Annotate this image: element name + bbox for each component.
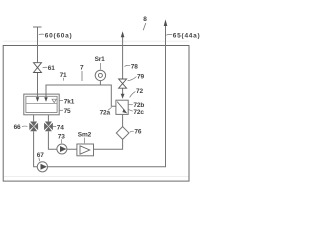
leader for 72b <box>129 104 133 106</box>
leader for 8 <box>143 23 146 30</box>
tank 7k1 outer shell <box>24 94 59 115</box>
arrow down into box 72 <box>121 94 125 99</box>
svg-text:75: 75 <box>64 108 71 115</box>
wire Sm2 to pump 73 to valve 74 <box>48 131 77 149</box>
arrow up on pipe 65 top <box>164 19 168 26</box>
svg-text:Sm2: Sm2 <box>78 131 92 138</box>
leader for 61 <box>43 66 48 69</box>
leader for 7k1 <box>60 99 63 101</box>
svg-text:72a: 72a <box>100 110 111 117</box>
wire box72 to diamond 76 <box>122 114 124 127</box>
svg-text:7k1: 7k1 <box>64 99 75 106</box>
svg-text:72: 72 <box>136 88 143 95</box>
three-way valve box 72 <box>116 100 128 114</box>
pump 73 <box>57 144 67 154</box>
arrow into tank from pipe 71 <box>44 97 47 102</box>
svg-text:76: 76 <box>134 129 141 136</box>
svg-text:Sr1: Sr1 <box>95 56 106 63</box>
pump 67 <box>37 162 47 172</box>
leader for 72 <box>130 92 136 98</box>
flow component Sm2 box <box>77 144 94 156</box>
leader for 73 <box>61 139 63 143</box>
leader for 75 <box>60 109 63 111</box>
arrow into tank from pipe 60 <box>36 97 39 102</box>
svg-text:78: 78 <box>131 63 138 70</box>
svg-text:71: 71 <box>60 72 67 79</box>
leader for 79 <box>128 77 137 81</box>
wire pipe 65 long L <box>34 26 166 167</box>
svg-text:60(60a): 60(60a) <box>45 32 73 39</box>
leader for 60(60a) <box>39 33 44 36</box>
svg-text:66: 66 <box>14 124 21 131</box>
arrow up on pipe 78 top <box>121 31 125 37</box>
valve 79 bowtie <box>119 79 127 88</box>
leader for 72c <box>129 110 133 112</box>
leader for 72a <box>108 107 112 110</box>
svg-text:67: 67 <box>37 152 44 159</box>
valve 61 bowtie <box>34 63 42 73</box>
wire pipe 60 tick <box>33 26 42 28</box>
leader for 76 <box>130 131 134 132</box>
svg-text:8: 8 <box>143 16 147 23</box>
valve 66 cross star <box>29 122 38 132</box>
diamond 76 <box>116 127 129 140</box>
leader for 71 <box>63 78 65 81</box>
liquid level mark in tank <box>26 99 57 103</box>
scan ghost line top <box>3 40 189 42</box>
sensor Sr1 circle <box>95 70 105 80</box>
leader for Sm2 <box>83 138 85 144</box>
valve 74 cross star <box>44 122 53 132</box>
scan ghost line bottom <box>3 176 189 178</box>
wire pipe 60 vertical <box>37 27 39 98</box>
wire valve 66 to tank <box>33 115 35 121</box>
leader for 78 <box>124 65 130 66</box>
svg-text:72c: 72c <box>133 109 144 116</box>
leader for 67 <box>39 158 40 161</box>
leader for 66 <box>22 125 27 128</box>
svg-text:73: 73 <box>58 133 65 140</box>
wire valve 74 to tank <box>47 115 49 121</box>
outer unit frame 8 <box>3 46 189 182</box>
wire pipe 78 vertical <box>122 37 124 94</box>
leader for Sr1 <box>99 63 101 70</box>
svg-text:61: 61 <box>48 65 55 72</box>
wire pipe 71 horizontal and down to 72a <box>46 85 116 106</box>
svg-text:74: 74 <box>57 125 64 132</box>
svg-text:79: 79 <box>137 73 144 80</box>
wire sensor stub <box>99 81 101 85</box>
tank inner wall <box>26 96 57 112</box>
svg-text:7: 7 <box>80 65 84 72</box>
leader for 65(44a) <box>166 33 172 36</box>
wire diamond to bottom pipe to Sm2 <box>94 139 123 149</box>
leader for 74 <box>53 125 56 127</box>
leader for 7 <box>81 71 83 81</box>
svg-text:65(44a): 65(44a) <box>173 33 200 40</box>
